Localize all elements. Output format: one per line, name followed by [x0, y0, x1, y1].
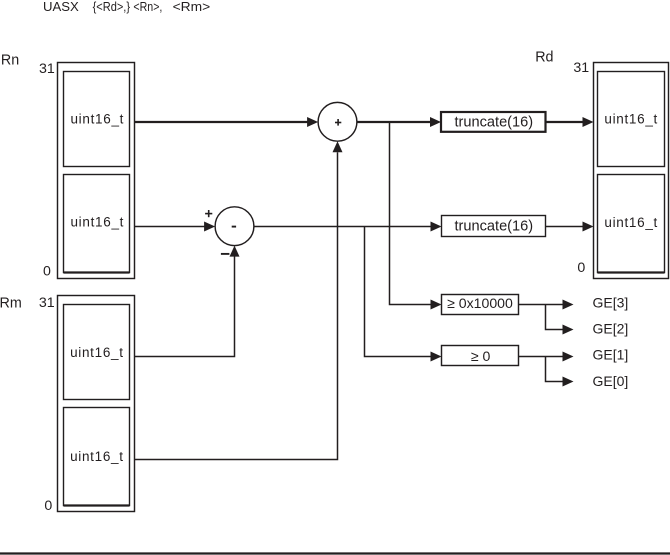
register Rm low field box	[64, 408, 130, 506]
svg-text:GE[3]: GE[3]	[593, 294, 629, 310]
label Rn bit 0	[43, 264, 51, 280]
label GE[1]	[593, 347, 629, 363]
comparator box >= 0x10000	[442, 295, 519, 315]
comparator box >= 0	[442, 346, 519, 366]
adder circle (+)	[318, 102, 357, 141]
wire comparator hi to GE[2]	[546, 305, 574, 335]
svg-text:uint16_t: uint16_t	[70, 214, 124, 229]
svg-text:31: 31	[39, 61, 55, 77]
label GE[0]	[593, 373, 629, 389]
wire adder result to GE high comparator	[390, 122, 442, 310]
svg-text:uint16_t: uint16_t	[604, 112, 658, 127]
label GE[3]	[593, 294, 629, 310]
svg-text:GE[0]: GE[0]	[593, 373, 629, 389]
wire Rm high to subtractor bottom	[135, 246, 240, 357]
register Rn low field box	[64, 175, 130, 273]
wire comparator hi to GE[3]	[519, 300, 574, 310]
label GE[2]	[593, 321, 629, 337]
title UASX syntax	[43, 0, 210, 14]
svg-text:0: 0	[577, 260, 585, 276]
wire truncate1 to Rd (thick)	[546, 117, 594, 127]
label Rd	[535, 50, 553, 66]
svg-text:0: 0	[43, 264, 51, 280]
register Rd outer box	[594, 63, 669, 279]
svg-text:uint16_t: uint16_t	[70, 111, 124, 126]
svg-text:{<Rd>,}: {<Rd>,}	[93, 0, 130, 14]
truncate(16) box low	[442, 216, 546, 237]
svg-text:≥ 0x10000: ≥ 0x10000	[447, 295, 513, 311]
svg-text:truncate(16): truncate(16)	[454, 114, 533, 130]
svg-text:uint16_t: uint16_t	[70, 345, 124, 360]
svg-text:Rd: Rd	[535, 50, 553, 66]
svg-text:≥ 0: ≥ 0	[471, 348, 491, 364]
wire Rn low to subtractor	[135, 222, 216, 232]
label Rd bit 31	[573, 60, 589, 76]
label plus sign at subtractor input	[205, 210, 212, 217]
register Rn high field box	[64, 72, 130, 167]
register Rd low field box	[598, 175, 665, 273]
register Rn outer box	[58, 63, 135, 279]
register Rd high field box	[598, 72, 665, 167]
label Rm	[0, 295, 22, 311]
wire subtractor to truncate2	[254, 222, 442, 232]
register Rm high field box	[64, 305, 130, 400]
svg-text:<Rn>,: <Rn>,	[133, 0, 162, 14]
wire Rn high to adder (thick)	[135, 117, 319, 127]
svg-text:31: 31	[39, 295, 55, 311]
label minus sign at subtractor bottom input	[221, 253, 230, 255]
svg-text:Rn: Rn	[1, 53, 19, 69]
wire comparator lo to GE[1]	[519, 352, 574, 362]
label Rm bit 31	[39, 295, 55, 311]
svg-text:truncate(16): truncate(16)	[454, 218, 533, 234]
svg-text:uint16_t: uint16_t	[70, 449, 124, 464]
wire subtractor result to GE low comparator	[365, 227, 442, 362]
svg-text:UASX: UASX	[43, 0, 79, 14]
svg-text:<Rm>: <Rm>	[173, 0, 211, 14]
svg-text:GE[2]: GE[2]	[593, 321, 629, 337]
label Rm bit 0	[44, 498, 52, 514]
wire adder to truncate1 (thick)	[357, 117, 441, 127]
label Rn	[1, 53, 19, 69]
svg-text:Rm: Rm	[0, 295, 22, 311]
wire comparator lo to GE[0]	[546, 357, 574, 387]
svg-text:uint16_t: uint16_t	[604, 215, 658, 230]
wire truncate2 to Rd	[546, 222, 594, 232]
subtractor circle (-)	[215, 207, 254, 246]
label Rn bit 31	[39, 61, 55, 77]
svg-text:0: 0	[44, 498, 52, 514]
truncate(16) box high	[441, 112, 546, 132]
wire Rm low to adder bottom	[135, 141, 343, 459]
label Rd bit 0	[577, 260, 585, 276]
register Rm outer box	[58, 296, 135, 512]
bottom page rule	[0, 552, 670, 554]
svg-text:31: 31	[573, 60, 589, 76]
svg-text:GE[1]: GE[1]	[593, 347, 629, 363]
